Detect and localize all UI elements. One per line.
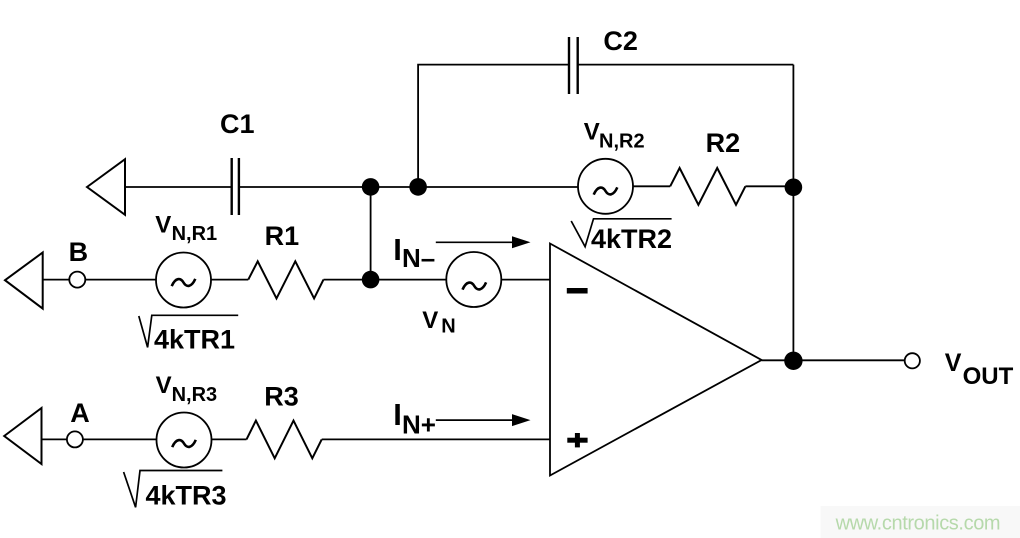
svg-text:4kTR2: 4kTR2	[591, 224, 672, 254]
wire pad B to noise source VN,R1	[85, 279, 156, 281]
svg-text:www.cntronics.com: www.cntronics.com	[835, 513, 1001, 535]
wire vertical node to inverting row	[370, 187, 372, 280]
svg-text:N–: N–	[402, 243, 435, 273]
svg-text:B: B	[69, 237, 89, 267]
wire C1 to noise source VN,R2	[239, 186, 578, 188]
noise source VN,R1	[156, 253, 211, 308]
wire R2 to rail	[745, 185, 793, 187]
wire pad A to noise source VN,R3	[83, 438, 157, 440]
label IN+	[393, 397, 436, 440]
current arrow IN+	[436, 414, 531, 426]
wire VN to op-amp inverting input	[501, 279, 551, 281]
input terminal arrow (C1 row)	[87, 159, 125, 215]
node output junction	[784, 352, 802, 370]
resistor R1	[248, 261, 323, 298]
value sqrt(4kTR1)	[139, 315, 238, 354]
resistor R3	[247, 421, 322, 459]
svg-text:OUT: OUT	[963, 363, 1014, 390]
op-amp U1	[550, 244, 762, 476]
svg-text:I: I	[393, 232, 402, 267]
wire op-amp output	[762, 359, 905, 361]
wire C2 right plate to right vertical rail	[578, 64, 794, 66]
wire right vertical rail down to output node	[792, 65, 794, 361]
node output pad (open circle)	[905, 353, 920, 368]
wire R1 to noise source VN	[324, 279, 447, 281]
label VN,R1	[155, 211, 217, 245]
svg-text:N,R1: N,R1	[172, 223, 218, 245]
svg-text:I: I	[393, 397, 402, 432]
node pad A (open circle)	[67, 431, 83, 447]
value sqrt(4kTR3)	[124, 471, 227, 511]
label VN	[422, 307, 455, 338]
node junction right (C1 row)	[409, 178, 427, 196]
svg-text:V: V	[155, 211, 171, 238]
svg-text:N+: N+	[402, 410, 436, 440]
svg-text:4kTR3: 4kTR3	[146, 481, 227, 511]
wire VN,R1 to R1	[211, 279, 248, 281]
label VOUT	[945, 349, 1014, 390]
svg-text:A: A	[70, 398, 90, 428]
label VN,R3	[156, 372, 218, 406]
svg-text:V: V	[584, 118, 600, 145]
wire terminal to C1	[125, 186, 232, 188]
wire terminal B to pad	[43, 279, 70, 281]
node junction left (C1 row)	[362, 178, 380, 196]
noise source VN,R3	[157, 413, 212, 468]
resistor R2	[670, 168, 745, 205]
wire top feedback from node up and across to C2	[418, 65, 569, 187]
svg-text:R3: R3	[264, 382, 299, 412]
svg-text:N,R2: N,R2	[599, 131, 645, 153]
wire VN,R3 to R3	[212, 438, 247, 440]
svg-text:V: V	[945, 349, 962, 377]
svg-text:N,R3: N,R3	[172, 384, 218, 406]
value sqrt(4kTR2)	[571, 219, 672, 254]
capacitor C1	[232, 158, 239, 215]
svg-text:R2: R2	[706, 128, 741, 158]
capacitor C2	[569, 37, 578, 94]
svg-text:N: N	[441, 316, 455, 338]
input terminal B triangle	[5, 253, 43, 309]
noise source VN	[446, 252, 501, 307]
svg-text:V: V	[422, 307, 438, 334]
noise source VN,R2	[578, 159, 633, 214]
svg-text:4kTR1: 4kTR1	[154, 324, 235, 354]
wire R3 to op-amp noninverting input	[322, 438, 551, 440]
input terminal A triangle	[4, 408, 41, 464]
node junction R2/rail	[785, 179, 803, 197]
label VN,R2	[584, 118, 645, 152]
svg-text:V: V	[156, 372, 172, 399]
wire VN,R2 to R2	[633, 185, 670, 187]
op-amp noninverting pin mark	[567, 433, 587, 447]
svg-text:C2: C2	[603, 26, 638, 56]
current arrow IN-	[436, 236, 531, 248]
node pad B (open circle)	[69, 272, 85, 288]
svg-text:R1: R1	[265, 221, 300, 251]
label IN-	[393, 232, 435, 273]
wire terminal A to pad	[42, 438, 67, 440]
watermark panel	[821, 506, 1020, 538]
svg-text:C1: C1	[220, 109, 255, 139]
op-amp inverting pin mark	[567, 288, 588, 294]
node junction inverting row	[362, 271, 380, 289]
